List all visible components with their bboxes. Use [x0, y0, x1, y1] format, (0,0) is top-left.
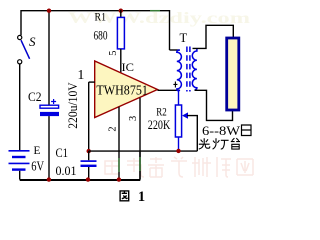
svg-text:6--8W: 6--8W [202, 123, 241, 138]
wire: top rail [21, 10, 170, 12]
svg-text:E: E [34, 145, 41, 157]
wire: wiper to feedback line [187, 116, 197, 152]
capacitor C1 plates [81, 160, 97, 162]
node: pin 2 bottom rail junction [117, 177, 121, 181]
transformer T primary winding [177, 50, 182, 91]
svg-text:680: 680 [94, 29, 108, 43]
node: C2 bottom rail junction [47, 177, 51, 181]
wire: feedback mid line [89, 150, 198, 152]
switch S terminal circles [18, 35, 22, 39]
svg-text:3: 3 [128, 116, 139, 121]
watermark green tint on wires [119, 11, 160, 172]
wire: IC pin 2 to bottom rail [118, 107, 120, 180]
node: R2 bottom junction [176, 149, 180, 153]
glyph guan [231, 138, 240, 149]
switch S lever (blue) [21, 40, 30, 59]
svg-text:220K: 220K [148, 118, 171, 132]
svg-text:220u/10V: 220u/10V [66, 82, 80, 129]
wire: R1 bottom lead to IC pin 5 [120, 49, 122, 73]
svg-text:C1: C1 [56, 145, 69, 160]
wire: secondary top to lamp [193, 25, 234, 48]
capacitor C1 top lead [88, 151, 90, 160]
glyph deng [213, 138, 229, 149]
svg-text:IC: IC [122, 60, 135, 74]
watermark bottom: pale pink outline CJK glyphs [105, 157, 253, 177]
fluorescent lamp body [227, 38, 239, 110]
wire: IC pin 3 to bottom rail [139, 98, 141, 180]
battery E: plates [9, 151, 30, 170]
node: C2 top rail junction [47, 9, 51, 13]
wire: pin 1 horizontal [89, 81, 95, 83]
capacitor C2 (electrolytic): + mark [51, 99, 56, 104]
wire: left column upper stub to switch [20, 10, 22, 35]
node: R1 top rail junction [119, 9, 123, 13]
svg-text:S: S [29, 34, 36, 49]
CJK glyph: ri (day) [242, 125, 252, 136]
glyph guang [199, 138, 210, 149]
wire: mid line drop to bottom rail [139, 151, 141, 180]
svg-text:C2: C2 [28, 89, 42, 104]
watermark top: pale yellow site text [68, 10, 251, 27]
capacitor C2 top plate (hollow) [40, 105, 59, 108]
CJK word: guang deng guan (fluorescent tube) [199, 138, 240, 149]
wire: C2 to bottom rail [48, 116, 50, 180]
wire: IC output tip to transformer [158, 89, 181, 91]
svg-text:6V: 6V [31, 160, 44, 175]
op-amp IC U1 TWH8751 triangle [95, 61, 158, 118]
svg-text:R1: R1 [95, 10, 107, 24]
wire: C2 column upper [48, 10, 50, 105]
transformer T secondary winding [192, 48, 197, 90]
wire: pin 1 down to feedback node [88, 82, 90, 151]
caption: tu (figure) glyph [120, 191, 129, 201]
R2 wiper arrow (blue) [182, 112, 188, 118]
wire: primary top horizontal [170, 49, 180, 51]
resistor R2 top lead (blue) [178, 90, 180, 105]
wire: top rail down to transformer primary top [169, 10, 171, 50]
node: C1 top junction [87, 149, 91, 153]
wire: bottom rail [20, 179, 141, 181]
transformer T core (dashed) [186, 47, 188, 92]
resistor R1 body [117, 17, 124, 49]
polarity mark at transformer primary bottom [173, 82, 177, 88]
svg-text:R2: R2 [156, 105, 167, 119]
wire: switch to battery [19, 64, 21, 150]
wire: C1 bottom lead [88, 167, 90, 180]
svg-text:0.01: 0.01 [56, 164, 77, 178]
svg-text:2: 2 [108, 126, 119, 131]
resistor R2 body [175, 105, 181, 137]
svg-text:5: 5 [108, 51, 119, 56]
svg-text:1: 1 [138, 189, 145, 203]
wire: battery to bottom rail [19, 171, 21, 180]
resistor R2 bottom lead (blue) [178, 137, 180, 151]
wire: secondary bottom [195, 90, 233, 120]
node: C1 bottom rail junction [86, 177, 90, 181]
capacitor C2 bottom plate (solid) [40, 112, 59, 116]
svg-text:1: 1 [77, 68, 84, 83]
wire: R1 top lead [120, 10, 122, 17]
svg-text:T: T [180, 31, 188, 45]
svg-text:TWH8751: TWH8751 [96, 83, 147, 98]
